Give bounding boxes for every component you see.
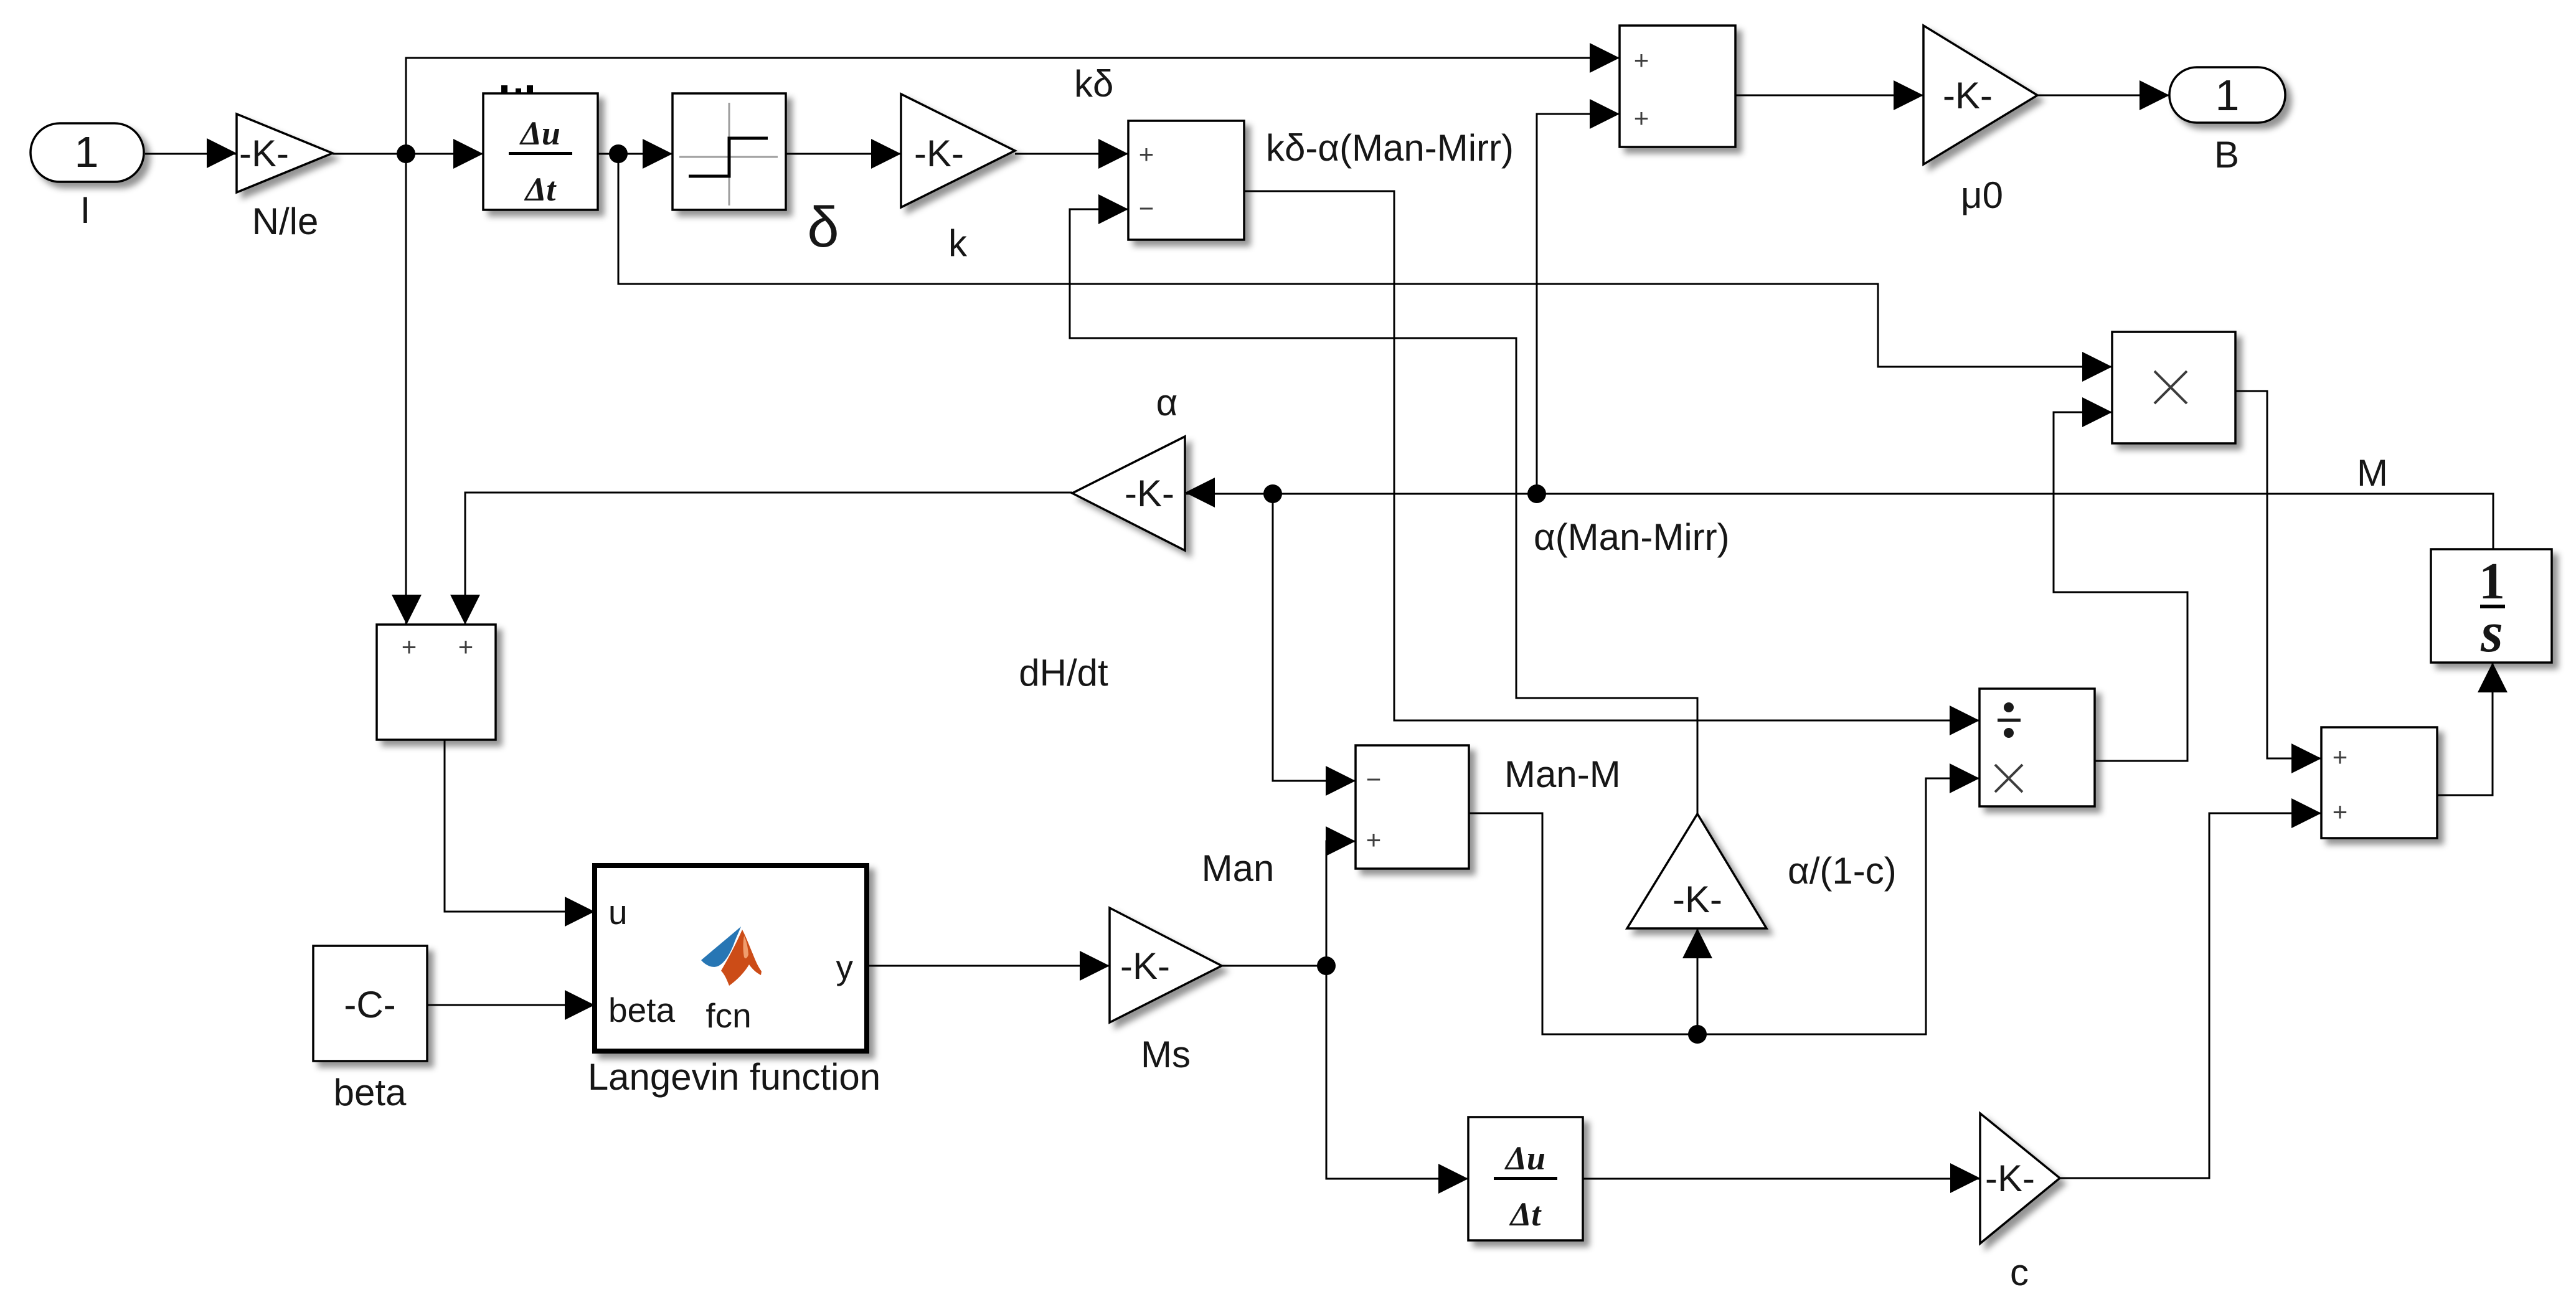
wire node Man up to Man-M plus input	[1326, 841, 1356, 966]
wire product X out to sum4 input 1	[2235, 391, 2321, 758]
node M to Man-M	[1263, 484, 1282, 503]
node M to sum1	[1527, 484, 1546, 503]
svg-text:+: +	[1634, 45, 1649, 75]
arrowhead sum2 input 1	[1098, 139, 1128, 169]
svg-text:-K-: -K-	[1125, 473, 1174, 514]
constant beta block	[313, 946, 427, 1061]
svg-text:+: +	[2333, 797, 2348, 826]
sum Man-M block	[1356, 745, 1469, 869]
arrowhead Langevin beta input	[565, 990, 595, 1020]
arrowhead Man-M input 1	[1326, 766, 1356, 796]
arrowhead sum1 input 2	[1590, 99, 1620, 129]
svg-text:+: +	[458, 632, 474, 661]
inport 1 (I)	[31, 123, 144, 182]
arrowhead du/dt 2 input	[1438, 1164, 1468, 1194]
wire M branch up to sum1 plus input 2	[1537, 114, 1620, 494]
svg-text:-C-: -C-	[344, 984, 395, 1026]
svg-text:+: +	[1634, 103, 1649, 133]
wire sum4 out to integrator 1/s bottom input	[2437, 663, 2493, 795]
sign block	[672, 93, 786, 210]
derivative block du/dt 2	[1468, 1117, 1583, 1240]
wire node B down and right to product X input 1	[618, 154, 2112, 367]
wire node Man down to du/dt 2 input	[1326, 966, 1468, 1179]
svg-text:-K-: -K-	[1985, 1158, 2035, 1199]
svg-text:s: s	[2480, 600, 2503, 664]
wire sum2 out kd-a(Man-Mirr) to divide input 1	[1244, 191, 1979, 720]
outport 1 (B)	[2169, 67, 2285, 123]
arrowhead a/(1-c) input up	[1682, 928, 1712, 958]
arrowhead du/dt 1 input	[453, 139, 483, 169]
arrowhead gain c input	[1950, 1163, 1980, 1193]
svg-text:α/(1-c): α/(1-c)	[1788, 850, 1897, 892]
node Man	[1317, 956, 1336, 975]
arrowhead product X input 1	[2082, 352, 2112, 382]
gain N/le	[237, 114, 333, 192]
svg-text:1: 1	[2215, 71, 2240, 120]
wire sum3 out to Langevin u input	[445, 740, 595, 912]
svg-text:Δt: Δt	[524, 171, 557, 208]
svg-text:+: +	[402, 632, 417, 661]
wire node A down to sum3 input 1	[405, 154, 407, 625]
matlab logo	[701, 927, 762, 986]
svg-text:B: B	[2214, 134, 2239, 176]
svg-text:N/le: N/le	[252, 201, 319, 242]
clipped text above du/dt block	[501, 85, 533, 94]
node Man-M to a/(1-c)	[1688, 1025, 1707, 1044]
svg-text:+: +	[1139, 139, 1154, 169]
svg-text:-K-: -K-	[1120, 945, 1170, 987]
arrowhead sum4 input 2	[2291, 798, 2321, 828]
wire Ms out to node Man	[1222, 965, 1326, 967]
wire node at 2726,1661 up to a/(1-c) gain input	[1697, 928, 1699, 1034]
arrowhead Ms input	[1080, 951, 1110, 981]
gain k	[901, 94, 1015, 207]
wire sign out to gain k	[785, 153, 901, 155]
arrowhead sign input	[643, 139, 672, 169]
arrowhead divide input 2	[1950, 763, 1979, 793]
sum3 block lower left	[377, 625, 496, 740]
svg-text:k: k	[948, 222, 968, 264]
wire gain k out to sum2 plus input	[1015, 153, 1128, 155]
wire N/le out to du/dt with node A branches	[333, 153, 483, 155]
arrowhead N/le input	[207, 138, 237, 168]
svg-text:Langevin function: Langevin function	[588, 1056, 880, 1098]
gain c	[1980, 1113, 2060, 1243]
svg-text:beta: beta	[608, 991, 675, 1029]
arrowhead sum3 input 2 down	[450, 595, 480, 625]
svg-text:-K-: -K-	[1943, 75, 1993, 116]
node A	[397, 144, 415, 163]
arrowhead divide input 1	[1950, 705, 1979, 735]
svg-text:α(Man-Mirr): α(Man-Mirr)	[1534, 516, 1730, 558]
svg-text:I: I	[80, 189, 91, 231]
svg-text:δ: δ	[807, 196, 839, 259]
Langevin function block	[595, 866, 867, 1051]
svg-text:u: u	[608, 893, 628, 932]
sum1 block top right	[1620, 26, 1735, 147]
wire gain alpha out to sum3 input 2	[465, 493, 1072, 625]
sum2 block kd-a(Man-Mirr)	[1128, 121, 1244, 240]
arrowhead sum3 input 1 down	[392, 595, 422, 625]
svg-text:−: −	[1139, 194, 1154, 223]
svg-text:Man: Man	[1202, 847, 1275, 889]
wire node A up to top bus feeding sum1	[406, 58, 1620, 154]
arrowhead Langevin u input	[565, 897, 595, 927]
svg-text:−: −	[1366, 765, 1382, 794]
arrowhead outport B input	[2140, 80, 2169, 110]
svg-text:fcn: fcn	[705, 996, 751, 1035]
arrowhead integrator input up	[2478, 663, 2508, 692]
product X block	[2112, 332, 2235, 443]
svg-text:y: y	[836, 948, 854, 986]
wire divide out to product X input 2	[2054, 412, 2187, 761]
svg-text:c: c	[2010, 1252, 2029, 1293]
gain a/(1-c) (up pointing)	[1627, 814, 1767, 928]
svg-text:Ms: Ms	[1141, 1034, 1191, 1075]
wire M branch down to Man-M minus input	[1273, 494, 1356, 781]
svg-text:α: α	[1156, 382, 1178, 423]
svg-text:dH/dt: dH/dt	[1019, 652, 1108, 694]
wire constant beta to Langevin beta input	[427, 1004, 595, 1006]
wire du/dt out to sign block	[598, 153, 672, 155]
wire Langevin y out to gain Ms	[867, 965, 1110, 967]
wire gain c out to sum4 input 2	[2060, 813, 2321, 1178]
svg-text:+: +	[2333, 742, 2348, 771]
svg-text:Δu: Δu	[1504, 1139, 1545, 1177]
svg-text:-K-: -K-	[1673, 879, 1722, 920]
svg-text:kδ-α(Man-Mirr): kδ-α(Man-Mirr)	[1266, 127, 1514, 169]
arrowhead gain k input	[871, 139, 901, 169]
derivative block du/dt 1	[483, 93, 598, 210]
svg-text:Δt: Δt	[1509, 1196, 1542, 1233]
svg-text:+: +	[1366, 825, 1382, 854]
svg-text:-K-: -K-	[914, 133, 964, 174]
arrowhead Man-M input 2	[1326, 826, 1356, 856]
wire a/(1-c) out to sum2 minus input	[1070, 209, 1697, 814]
svg-text:Man-M: Man-M	[1504, 753, 1621, 795]
integrator 1/s block	[2431, 549, 2552, 664]
wire mu0 out to outport B	[2037, 95, 2169, 97]
svg-text:beta: beta	[334, 1072, 407, 1113]
gain mu0	[1923, 26, 2037, 164]
svg-text:1: 1	[75, 128, 99, 176]
wire inport I to gain N/le	[145, 153, 237, 155]
node B	[609, 144, 628, 163]
gain alpha (left pointing)	[1072, 436, 1185, 550]
arrowhead sum2 input 2	[1098, 194, 1128, 224]
arrowhead product X input 2	[2082, 397, 2112, 427]
svg-text:kδ: kδ	[1074, 63, 1113, 105]
arrowhead sum1 input 1	[1590, 43, 1620, 73]
wire du/dt 2 out to gain c	[1583, 1178, 1980, 1180]
arrowhead sum4 input 1	[2291, 743, 2321, 773]
svg-text:Δu: Δu	[519, 115, 560, 152]
svg-text:-K-: -K-	[239, 133, 289, 174]
sum4 block right	[2321, 727, 2437, 838]
svg-text:μ0: μ0	[1961, 174, 2003, 216]
wire M feedback from integrator top to gain alpha	[1186, 494, 2493, 549]
gain Ms	[1110, 908, 1222, 1022]
divide block	[1979, 689, 2095, 806]
arrowhead gain alpha input left	[1185, 478, 1215, 507]
wire sum1 out to gain mu0	[1735, 95, 1923, 97]
wire Man-M out to divide input 2 with branch to a/(1-c)	[1469, 778, 1979, 1034]
svg-text:M: M	[2357, 452, 2388, 494]
arrowhead mu0 input	[1894, 80, 1923, 110]
